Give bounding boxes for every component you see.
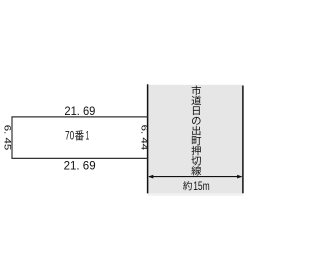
road name char 8: 切 xyxy=(191,156,200,165)
road name char 5: 出 xyxy=(192,126,200,136)
kanji yaku (approx.) xyxy=(183,181,192,190)
svg-text:6. 44: 6. 44 xyxy=(139,125,149,151)
svg-text:21. 69: 21. 69 xyxy=(64,104,95,118)
road area fill (municipal road) xyxy=(148,85,243,194)
svg-text:6. 45: 6. 45 xyxy=(3,125,13,151)
road name char 6: 町 xyxy=(192,136,201,145)
road width arrow (double-headed, ~15m) xyxy=(148,175,242,179)
svg-text:21. 69: 21. 69 xyxy=(64,158,96,172)
road right edge line xyxy=(242,86,244,194)
road name char 9: 線 xyxy=(191,166,201,176)
parcel number label 70(ban)1 xyxy=(65,130,89,143)
road name vertical text: 市道日の出町押切線 xyxy=(191,85,201,175)
svg-text:70: 70 xyxy=(65,130,75,143)
kanji ban (lot number) xyxy=(75,130,84,140)
road bottom fade edge xyxy=(148,193,243,195)
parcel 70-1 boundary (top, left, bottom) xyxy=(12,117,148,158)
road name char 2: 道 xyxy=(191,96,201,105)
svg-text:15m: 15m xyxy=(193,179,210,193)
road name char 1: 市 xyxy=(192,85,201,95)
road width label 約15m xyxy=(183,179,210,193)
svg-text:1: 1 xyxy=(86,130,90,143)
road name char 7: 押 xyxy=(191,146,200,156)
road name char 3: 日 xyxy=(193,106,200,115)
road name char 4: の xyxy=(192,117,201,125)
road left edge line xyxy=(147,84,149,193)
